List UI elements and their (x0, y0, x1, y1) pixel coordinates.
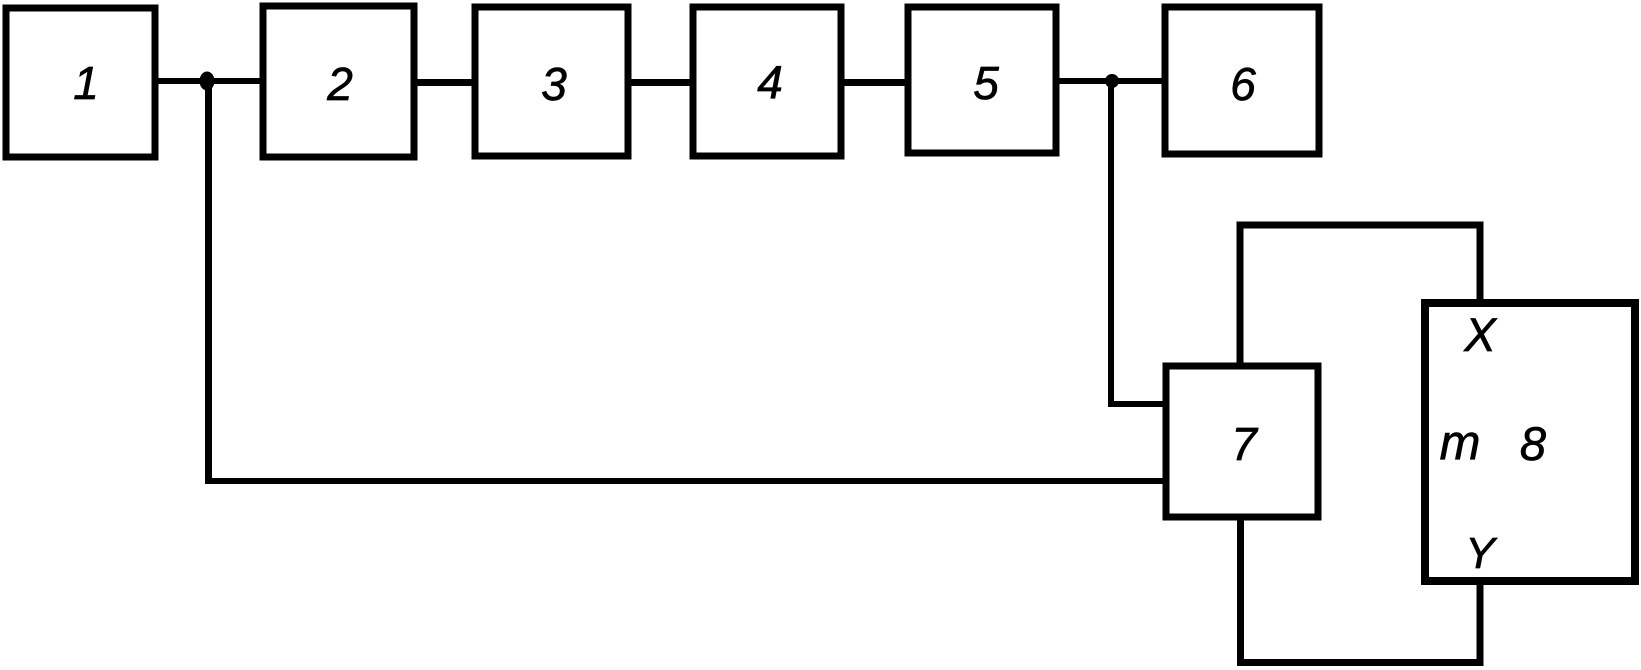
wire block7 bottom to block8 Y input (1241, 520, 1481, 663)
svg-text:6: 6 (1230, 58, 1256, 110)
node junction A (after block 1) (200, 72, 215, 91)
wire node B down (1108, 81, 1114, 401)
block 5 box (908, 7, 1056, 153)
wire node A down (205, 81, 212, 478)
wire block2 to block3 (414, 79, 478, 86)
svg-text:4: 4 (757, 56, 783, 108)
svg-text:5: 5 (973, 57, 999, 109)
wire block5 to block6 (1056, 78, 1165, 84)
svg-text:Y: Y (1465, 529, 1497, 578)
wire block7 top to block8 X input (1240, 225, 1480, 363)
node junction B (after block 5) (1105, 74, 1119, 88)
block 2 box (263, 6, 414, 157)
block 6 box (1165, 7, 1319, 154)
wire block1 to block2 (155, 78, 263, 84)
svg-text:8: 8 (1520, 417, 1546, 470)
wire block3 to block4 (628, 79, 693, 86)
block 7 box (1166, 366, 1318, 517)
svg-text:2: 2 (326, 58, 353, 110)
svg-text:m: m (1440, 416, 1481, 470)
svg-text:7: 7 (1231, 418, 1258, 470)
block 8 box (1425, 303, 1635, 581)
block 1 box (6, 8, 155, 157)
svg-text:X: X (1463, 308, 1497, 361)
block 3 box (475, 7, 628, 156)
wire block4 to block5 (841, 79, 908, 86)
svg-text:3: 3 (541, 58, 567, 110)
svg-text:1: 1 (73, 57, 99, 109)
wire node A to block7 (long horizontal) (205, 478, 1163, 484)
wire node B to block7 (1108, 401, 1163, 407)
block 4 box (693, 7, 841, 156)
